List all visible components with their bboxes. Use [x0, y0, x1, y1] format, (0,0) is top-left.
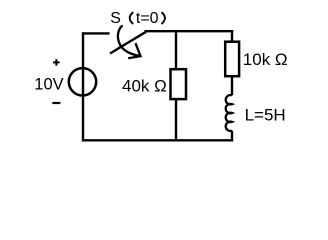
- wire bottom: [82, 139, 233, 141]
- wire left vertical: [82, 32, 84, 140]
- wire right vertical upper: [231, 30, 233, 42]
- wire top: [145, 30, 234, 32]
- switch arrow barb: [128, 43, 140, 58]
- svg-text:L=5H: L=5H: [245, 105, 286, 124]
- svg-text:10k Ω: 10k Ω: [243, 50, 288, 69]
- inductor L1 coil: [226, 95, 232, 131]
- svg-text:S: S: [110, 10, 121, 27]
- svg-text:t=0: t=0: [136, 10, 159, 27]
- wire middle vertical upper: [175, 30, 177, 69]
- wire top-left stub: [83, 32, 110, 34]
- resistor R1 40k box: [171, 69, 187, 99]
- resistor R2 10k box: [225, 42, 239, 76]
- switch closing arrow arc: [118, 25, 140, 56]
- wire right vertical lower: [231, 131, 233, 141]
- wire right between resistor and coil: [231, 76, 233, 95]
- switch S arm: [110, 32, 146, 54]
- svg-text:10V: 10V: [34, 76, 63, 94]
- plus sign: [53, 59, 60, 65]
- wire middle vertical lower: [175, 99, 177, 140]
- voltage source V1 circle: [69, 68, 96, 95]
- minus sign: [52, 102, 60, 104]
- svg-text:40k Ω: 40k Ω: [122, 77, 167, 96]
